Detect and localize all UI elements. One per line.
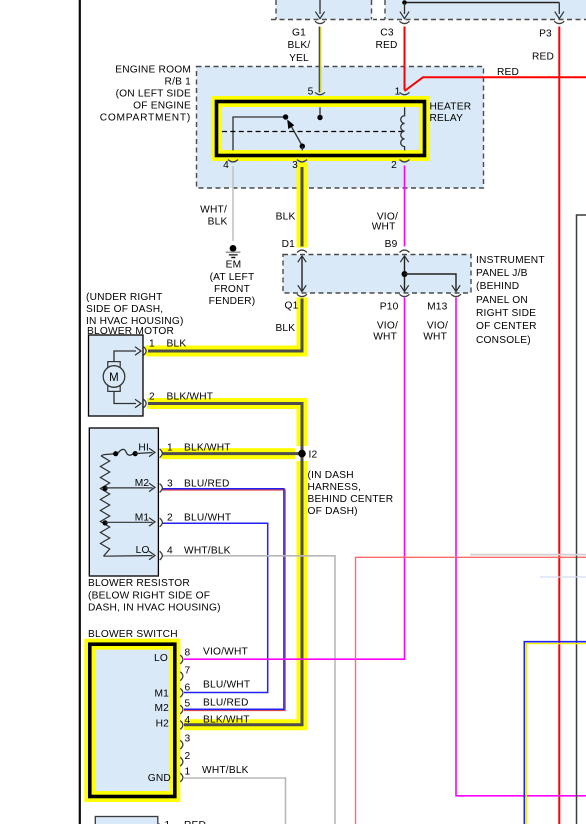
svg-text:FENDER): FENDER) <box>209 296 256 307</box>
label RED (branch wire) <box>497 67 519 78</box>
relay internal: mechanical link (dashed) <box>222 131 404 133</box>
svg-text:(IN DASH: (IN DASH <box>308 470 354 481</box>
caption ENGINE ROOM R/B 1 <box>100 65 191 124</box>
blower switch highlighted body (yellow+black box) <box>90 644 175 796</box>
connector Q1 terminal cup <box>297 294 307 296</box>
resistor thermal fuse link to HI <box>101 448 155 456</box>
svg-text:3: 3 <box>292 160 298 171</box>
svg-text:3: 3 <box>167 479 173 490</box>
caption INSTRUMENT PANEL J/B <box>476 255 545 346</box>
svg-text:1: 1 <box>167 443 173 454</box>
svg-text:RED: RED <box>375 40 397 51</box>
resistor pin M1 cup <box>160 518 163 527</box>
svg-text:G1: G1 <box>292 28 306 39</box>
svg-text:BEHIND CENTER: BEHIND CENTER <box>308 494 394 505</box>
resistor element (zigzag) <box>100 456 109 556</box>
wire WHT/BLK from resistor LO down off-page <box>162 556 335 824</box>
wire BLU/RED from resistor M2 to switch pin 5 (blue with red stripe) <box>162 489 285 711</box>
svg-text:P10: P10 <box>380 302 399 313</box>
svg-text:BLU/WHT: BLU/WHT <box>203 680 250 691</box>
wire BLK/WHT from junction I2 to resistor HI (yellow highlighted) <box>162 448 299 459</box>
wire RED from C3 to relay pin 1 <box>404 27 406 91</box>
label 4 WHT/BLK (resistor LO) <box>167 546 231 557</box>
svg-text:OF ENGINE: OF ENGINE <box>133 101 191 112</box>
caption (UNDER RIGHT SIDE OF DASH, IN HVAC HOUSING) BLOWER MOTOR <box>86 292 184 337</box>
svg-text:RED: RED <box>532 52 554 63</box>
switch pin 3 cup <box>180 740 183 749</box>
svg-text:M: M <box>109 372 119 384</box>
wire VIO/WHT from relay pin 2 to J/B B9 <box>404 166 406 247</box>
label EM (AT LEFT FRONT FENDER) <box>209 260 256 308</box>
svg-text:BLK/WHT: BLK/WHT <box>184 443 231 454</box>
wire (black) corner from right edge down off-page <box>577 215 586 824</box>
caption BLOWER RESISTOR (BELOW RIGHT SIDE OF DASH, IN HVAC HOUSING) <box>88 578 221 614</box>
svg-text:HI: HI <box>138 442 149 453</box>
label VIO/WHT (M13 wire) <box>423 321 448 343</box>
svg-text:4: 4 <box>167 546 173 557</box>
switch pin 7 cup <box>180 672 183 681</box>
svg-text:BLK/WHT: BLK/WHT <box>167 392 214 403</box>
svg-text:LO: LO <box>154 653 168 664</box>
relay pin number 1 <box>395 87 401 98</box>
resistor tap M2 <box>103 483 156 491</box>
svg-text:1: 1 <box>395 87 401 98</box>
bottom component box (off-page) <box>95 817 158 824</box>
svg-text:ENGINE ROOM: ENGINE ROOM <box>115 65 191 76</box>
label M1 <box>135 513 150 524</box>
switch pin 5 cup <box>180 705 183 714</box>
connector G1 (arrow + terminal cup) <box>315 0 325 24</box>
svg-text:PANEL J/B: PANEL J/B <box>476 268 528 279</box>
switch position labels <box>148 653 171 784</box>
label BLU/RED (switch pin 5) <box>203 698 249 709</box>
svg-text:WHT: WHT <box>373 332 397 343</box>
switch pin numbers <box>185 648 191 778</box>
svg-text:BLU/RED: BLU/RED <box>203 698 249 709</box>
wire WHT/BLK from switch pin 1 down off-page <box>184 778 286 824</box>
relay pin 3 terminal cup <box>297 160 307 162</box>
svg-text:1: 1 <box>185 767 191 778</box>
wire BLK/WHT from junction I2 to blower switch pin 4 (yellow highlighted) <box>184 457 302 725</box>
switch pin 8 cup <box>180 655 183 664</box>
label BLU/WHT (switch pin 6) <box>203 680 250 691</box>
svg-text:H2: H2 <box>156 719 170 730</box>
wire RED from P3 down right side (off-page) <box>558 27 560 824</box>
svg-text:RED: RED <box>184 820 206 824</box>
svg-text:SIDE OF DASH,: SIDE OF DASH, <box>86 304 163 315</box>
wire BLU/WHT from resistor M1 to switch pin 6 <box>162 523 268 692</box>
svg-text:5: 5 <box>185 699 191 710</box>
relay pin 4 terminal cup <box>228 160 238 162</box>
svg-text:(BELOW RIGHT SIDE OF: (BELOW RIGHT SIDE OF <box>88 591 210 602</box>
svg-text:EM: EM <box>226 260 242 271</box>
svg-text:BLK/: BLK/ <box>288 40 311 51</box>
svg-text:BLK: BLK <box>208 216 228 227</box>
engine room R/B 1 box (dashed) <box>197 67 484 189</box>
svg-text:WHT: WHT <box>423 332 447 343</box>
wire BLK/YEL from G1 to relay pin 5 <box>319 27 320 93</box>
switch pin 4 cup <box>180 721 183 730</box>
svg-text:M1: M1 <box>154 689 169 700</box>
relay pin number 5 <box>308 87 314 98</box>
svg-text:BLK/WHT: BLK/WHT <box>203 714 250 725</box>
connector P3 (arrow + terminal cup) <box>554 3 564 24</box>
svg-text:VIO/: VIO/ <box>427 321 448 332</box>
label WHT/BLK (relay pin 4 wire) <box>200 205 227 228</box>
relay pin number 4 <box>223 160 229 171</box>
label P10 <box>380 302 399 313</box>
relay pin 1 terminal cup <box>400 92 410 94</box>
caption BLOWER SWITCH <box>88 629 178 640</box>
caption (IN DASH HARNESS, BEHIND CENTER OF DASH) <box>308 470 394 517</box>
resistor bottom to LO <box>104 551 156 559</box>
svg-text:P3: P3 <box>539 29 552 40</box>
svg-text:C3: C3 <box>380 28 394 39</box>
label 1 BLK/WHT (resistor HI) <box>167 443 231 454</box>
svg-text:5: 5 <box>308 87 314 98</box>
svg-text:GND: GND <box>148 773 171 784</box>
J/B internal branch to M13 <box>405 274 461 292</box>
relay internal: pin 4 wire to contact <box>233 114 288 150</box>
connector D1 terminal cap <box>297 250 307 252</box>
motor pin 2 internal wire and arrow <box>114 391 141 407</box>
label LO <box>136 545 150 556</box>
wire VIO/WHT from J/B M13 to right edge <box>456 298 586 796</box>
connector P10 terminal cup <box>400 294 410 296</box>
svg-text:Q1: Q1 <box>285 301 299 312</box>
svg-text:M2: M2 <box>154 703 169 714</box>
label RED (P3 wire) <box>532 52 554 63</box>
relay pin number 2 <box>391 160 397 171</box>
svg-text:BLK: BLK <box>276 211 296 222</box>
relay pin 5 terminal cup <box>315 92 325 94</box>
resistor tap M1 <box>103 518 156 526</box>
resistor pin LO cup <box>160 551 163 560</box>
svg-text:R/B 1: R/B 1 <box>165 77 192 88</box>
label M13 <box>427 302 448 313</box>
blower resistor box <box>89 428 158 576</box>
label HEATER RELAY <box>430 101 472 124</box>
label G1 BLK/YEL <box>288 28 311 65</box>
label BLK/WHT (switch pin 4) <box>203 714 250 725</box>
svg-text:WHT/: WHT/ <box>200 205 227 216</box>
label VIO/WHT (P10 wire) <box>373 321 398 343</box>
instrument panel J/B box (dashed) <box>283 255 471 294</box>
svg-text:VIO/WHT: VIO/WHT <box>203 647 248 658</box>
connector C3 (arrow + terminal cup) <box>400 3 410 24</box>
relay internal: pin 5 stub and fixed contact <box>317 107 322 120</box>
svg-text:INSTRUMENT: INSTRUMENT <box>476 255 545 266</box>
svg-text:BLK: BLK <box>275 323 295 334</box>
svg-text:2: 2 <box>149 392 155 403</box>
label VIO/WHT (switch pin 8) <box>203 647 248 658</box>
wire RED from bottom pin 1 up to junction and right edge <box>163 557 586 824</box>
label P3 <box>539 29 552 40</box>
svg-text:YEL: YEL <box>289 53 309 64</box>
svg-text:WHT: WHT <box>372 221 396 232</box>
svg-text:COMPARTMENT): COMPARTMENT) <box>100 113 191 124</box>
svg-text:BLOWER RESISTOR: BLOWER RESISTOR <box>88 578 190 589</box>
resistor pin M2 cup <box>160 484 163 493</box>
svg-text:RIGHT SIDE: RIGHT SIDE <box>476 308 536 319</box>
svg-text:B9: B9 <box>385 239 398 250</box>
label 3 BLU/RED (resistor M2) <box>167 479 230 490</box>
svg-text:VIO/: VIO/ <box>377 321 398 332</box>
relay pin 2 terminal cup <box>400 160 410 162</box>
svg-text:WHT/BLK: WHT/BLK <box>184 546 231 557</box>
svg-text:(BEHIND: (BEHIND <box>476 281 519 292</box>
relay internal: coil <box>401 107 405 150</box>
svg-text:D1: D1 <box>282 239 296 250</box>
wire (off-page circuit) along left edge <box>79 0 81 824</box>
label VIO/WHT (relay pin 2 wire) <box>372 211 398 232</box>
svg-text:OF CENTER: OF CENTER <box>476 321 537 332</box>
J/B internal junction node <box>402 271 408 277</box>
motor pin 1 internal wire and arrow <box>114 347 141 362</box>
svg-text:BLU/RED: BLU/RED <box>184 479 230 490</box>
svg-text:M13: M13 <box>427 302 448 313</box>
node junction on bus to C3 <box>402 0 407 5</box>
svg-text:2: 2 <box>167 513 173 524</box>
label BLK (Q1 wire) <box>275 323 295 334</box>
wire BLK from J/B Q1 to blower motor pin 1 (yellow highlighted) <box>146 298 302 352</box>
label I2 <box>309 450 318 461</box>
heater relay highlighted body (yellow+black box) <box>217 102 425 156</box>
svg-text:1: 1 <box>165 820 171 824</box>
label B9 <box>385 239 398 250</box>
svg-text:RELAY: RELAY <box>430 113 464 124</box>
svg-text:M1: M1 <box>135 513 150 524</box>
wire BLK/WHT from motor pin 2 to junction I2 (yellow highlighted) <box>147 404 302 451</box>
label 2 BLU/WHT (resistor M1) <box>167 513 231 524</box>
svg-text:I2: I2 <box>309 450 318 461</box>
svg-text:OF DASH): OF DASH) <box>308 506 358 517</box>
ground EM symbol <box>226 245 241 258</box>
blower motor pin 1 cup <box>143 347 146 356</box>
svg-text:8: 8 <box>185 648 191 659</box>
svg-text:2: 2 <box>391 160 397 171</box>
connector box (top component, off-page) with C3 and P3 <box>380 0 586 20</box>
svg-text:DASH, IN HVAC HOUSING): DASH, IN HVAC HOUSING) <box>88 603 221 614</box>
motor M symbol <box>103 362 125 392</box>
svg-text:3: 3 <box>185 734 191 745</box>
label M2 <box>135 478 150 489</box>
svg-text:LO: LO <box>136 545 150 556</box>
blower motor pin 2 cup <box>143 399 146 408</box>
label D1 <box>282 239 296 250</box>
label BLK (relay pin 3 wire) <box>276 211 296 222</box>
blower motor box <box>89 335 144 416</box>
switch pin 2 cup <box>180 757 183 766</box>
wire (faint blue) segment near right edge <box>540 576 586 578</box>
wire WHT/BLK from relay pin 4 to ground EM <box>232 166 234 241</box>
label Q1 <box>285 301 299 312</box>
svg-text:(AT LEFT: (AT LEFT <box>210 272 255 283</box>
svg-text:(ON LEFT SIDE: (ON LEFT SIDE <box>116 89 191 100</box>
label WHT/BLK (switch pin 1) <box>202 765 249 776</box>
J/B internal pin D1-Q1 (double arrow) <box>298 256 306 292</box>
connector B9 terminal cap <box>400 250 410 252</box>
svg-text:2: 2 <box>185 751 191 762</box>
svg-text:4: 4 <box>185 715 191 726</box>
svg-text:RED: RED <box>497 67 519 78</box>
wire BLK from relay pin 3 to J/B D1 (yellow highlighted) <box>297 163 308 248</box>
wire (white/gray) segment near right edge <box>470 554 586 556</box>
svg-text:HEATER: HEATER <box>430 101 472 112</box>
relay internal: movable contact arm (switch) <box>288 120 305 150</box>
label 1 RED (bottom pin) <box>165 820 207 824</box>
svg-text:CONSOLE): CONSOLE) <box>476 335 531 346</box>
switch pin 1 cup <box>180 773 183 782</box>
relay pin number 3 <box>292 160 298 171</box>
wire VIO/WHT from J/B P10 to switch pin 8 <box>184 298 405 660</box>
label C3 RED <box>375 28 397 52</box>
node I2 junction <box>298 450 306 458</box>
svg-text:6: 6 <box>185 682 191 693</box>
wire RED branch from relay pin 1 to right edge <box>405 77 586 91</box>
svg-text:4: 4 <box>223 160 229 171</box>
J/B internal pin B9-P10 (double arrow) <box>400 256 408 292</box>
switch pin 6 cup <box>180 688 183 697</box>
svg-text:BLU/WHT: BLU/WHT <box>184 513 231 524</box>
label HI <box>138 442 149 453</box>
svg-text:FRONT: FRONT <box>214 284 250 295</box>
svg-text:(UNDER RIGHT: (UNDER RIGHT <box>86 292 163 303</box>
connector box (top component, off-page) with G1 <box>271 0 377 20</box>
svg-text:PANEL ON: PANEL ON <box>476 295 528 306</box>
svg-text:7: 7 <box>185 666 191 677</box>
svg-text:BLOWER SWITCH: BLOWER SWITCH <box>88 629 178 640</box>
wire BLU corner from right edge down off-page <box>524 642 586 824</box>
svg-text:BLK: BLK <box>167 339 187 350</box>
svg-text:HARNESS,: HARNESS, <box>308 482 362 493</box>
svg-text:WHT/BLK: WHT/BLK <box>202 765 249 776</box>
label 2 BLK/WHT (motor pin 2) <box>149 392 213 403</box>
svg-text:1: 1 <box>149 339 155 350</box>
connector M13 terminal cup <box>451 294 461 296</box>
label 1 BLK (motor pin 1) <box>149 339 186 350</box>
svg-text:BLOWER MOTOR: BLOWER MOTOR <box>87 326 174 337</box>
wire YEL corner from right edge down off-page <box>526 644 586 824</box>
resistor pin HI cup <box>160 449 163 458</box>
wire bus from C3 junction to P3 <box>405 2 560 4</box>
svg-text:M2: M2 <box>135 478 150 489</box>
